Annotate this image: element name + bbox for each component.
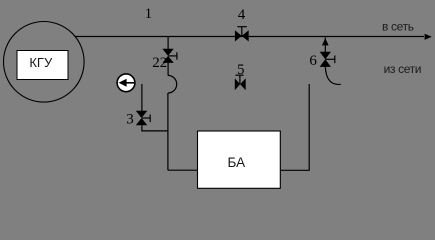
svg-text:1: 1 — [145, 6, 153, 22]
valve 6 (vertical bowtie) — [320, 52, 331, 60]
valve 5 stem — [236, 74, 244, 76]
wire valve 3 down and right — [142, 125, 168, 131]
pump (circle with left arrow) — [117, 74, 135, 92]
svg-text:22: 22 — [152, 55, 167, 71]
svg-text:КГУ: КГУ — [29, 55, 53, 70]
svg-text:6: 6 — [309, 53, 317, 69]
wire into BA box left — [168, 169, 198, 171]
hook wire below valve 6 — [325, 67, 341, 85]
KGU box — [17, 51, 68, 80]
wire loop down to BA — [167, 93, 169, 170]
svg-text:3: 3 — [126, 112, 134, 128]
valve 4 stem — [241, 27, 243, 36]
valve 4 (bowtie on main line) — [235, 30, 242, 41]
valve 2 (vertical bowtie) — [162, 49, 173, 56]
pipe loop (compensator semicircle) — [168, 75, 177, 93]
svg-text:4: 4 — [238, 7, 246, 23]
main supply wire (horizontal) — [75, 36, 425, 38]
svg-text:БА: БА — [228, 155, 246, 170]
valve 3 (vertical bowtie) — [136, 111, 148, 118]
BA accumulator box — [198, 131, 281, 188]
return wire down right side into BA — [280, 84, 309, 170]
wire from main line down to valve 2 — [167, 37, 169, 50]
arrow to network — [425, 34, 432, 40]
svg-text:из сети: из сети — [384, 62, 422, 76]
wire pump branch down to valve 3 — [141, 84, 143, 111]
wire from main line down to valve 6 with up arrow — [324, 38, 326, 53]
valve 2 handle — [168, 55, 177, 57]
wire valve 2 to loop — [167, 63, 169, 76]
svg-text:в сеть: в сеть — [382, 19, 414, 33]
generator circle (KGU unit) — [4, 22, 85, 103]
valve 3 handle — [142, 117, 150, 119]
valve 5 (bowtie, standalone) — [235, 78, 240, 90]
valve 6 handle — [325, 58, 335, 60]
